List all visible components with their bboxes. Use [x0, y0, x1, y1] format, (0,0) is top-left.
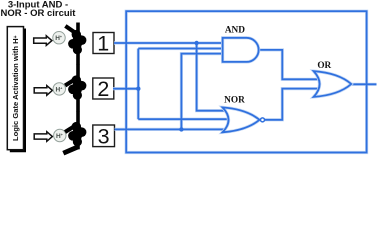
arrow 2 — [34, 86, 52, 96]
arrow 1 — [34, 36, 52, 46]
polymer chain molecule — [62, 23, 86, 156]
svg-text:AND: AND — [225, 26, 245, 36]
unit 3 — [62, 111, 86, 155]
svg-text:1: 1 — [97, 32, 109, 56]
wire OR output — [351, 83, 376, 85]
wire halo underlay — [113, 11, 377, 152]
wire node2 -> NOR input B — [138, 118, 228, 120]
unit 2 — [64, 65, 86, 112]
NOR inversion bubble — [261, 118, 265, 122]
arrow 3 — [34, 132, 52, 142]
unit 1 — [64, 23, 86, 65]
wire branch node3 -> AND input C — [181, 54, 223, 130]
H+ ion 2 — [53, 83, 65, 95]
svg-text:Logic Gate Activation with H+: Logic Gate Activation with H+ — [11, 35, 20, 141]
H+ ion 3 — [54, 129, 66, 141]
AND gate U1 — [223, 38, 259, 62]
wire box1 -> AND input A — [114, 42, 224, 44]
input box 1 — [93, 32, 114, 56]
wire vertical node2 — [137, 49, 139, 120]
svg-text:NOR: NOR — [224, 95, 245, 105]
wire box2 -> node2 — [113, 88, 138, 90]
wire box3 -> NOR input C — [115, 128, 229, 130]
input box 2 — [93, 77, 114, 101]
H+ ion 1 — [53, 32, 65, 44]
junction node 3 — [179, 127, 183, 131]
label box shadow — [10, 29, 26, 153]
svg-text:OR: OR — [317, 61, 331, 71]
title: 3-Input AND - NOR - OR circuit — [1, 0, 77, 19]
input box 3 — [93, 124, 115, 148]
wire node2 -> AND input B — [138, 48, 223, 50]
wire branch node1 -> NOR input A — [197, 43, 229, 111]
NOR gate U2 — [223, 107, 260, 132]
circuit boundary rectangle — [126, 11, 366, 152]
label box: Logic Gate Activation with H+ — [7, 27, 23, 150]
wire AND output -> OR input A — [259, 50, 320, 79]
svg-text:3: 3 — [98, 124, 110, 148]
svg-text:2: 2 — [97, 77, 109, 101]
junction node 1 — [194, 41, 198, 45]
wire NOR output -> OR input B — [265, 89, 320, 120]
OR gate U3 — [314, 71, 352, 97]
junction node 2 — [136, 87, 140, 91]
svg-text:NOR - OR circuit: NOR - OR circuit — [1, 8, 77, 19]
